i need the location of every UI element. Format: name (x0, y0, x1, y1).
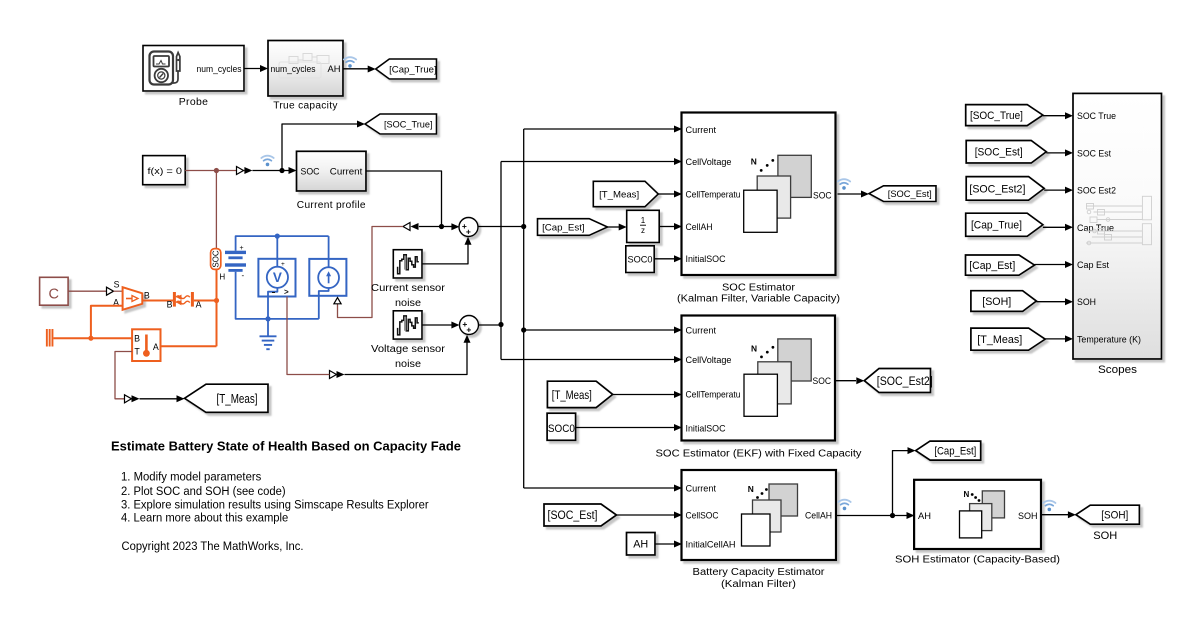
wire unit delay to CellAH est1 (659, 223, 682, 230)
battery SOC port bubble (211, 249, 221, 270)
wire [SOC_Est] to Scopes input (1046, 149, 1073, 156)
svg-text:CellVoltage: CellVoltage (686, 354, 732, 365)
svg-text:1. Modify model parameters: 1. Modify model parameters (121, 470, 261, 484)
svg-text:[T_Meas]: [T_Meas] (217, 392, 258, 406)
svg-text:SOC: SOC (301, 166, 320, 177)
wire battery SOC net (216, 170, 248, 172)
label SOC Estimator (677, 282, 840, 304)
goto tag SOC_Est (869, 186, 936, 202)
wire H node vertical (216, 269, 218, 346)
from tag [T_Meas] to Scopes (971, 328, 1045, 350)
goto tag SOC_Est2 (864, 369, 932, 393)
wire [SOC_True] to Scopes input (1043, 112, 1073, 119)
svg-text:[Cap_True]: [Cap_True] (389, 63, 437, 74)
label True capacity (273, 100, 338, 111)
wire temperature sensor T measurement (115, 352, 132, 399)
wire top bus into voltmeter plus (276, 236, 278, 259)
svg-text:(Kalman Filter, Variable Capac: (Kalman Filter, Variable Capacity) (677, 294, 840, 305)
svg-text:[T_Meas]: [T_Meas] (552, 388, 592, 402)
wire [Cap_Est] to Scopes input (1035, 261, 1074, 268)
svg-text:Scopes: Scopes (1098, 364, 1138, 376)
wire node up to source A (91, 306, 123, 339)
svg-text:N: N (751, 344, 757, 354)
svg-text:[T_Meas]: [T_Meas] (977, 334, 1022, 346)
svg-text:SOH Estimator (Capacity-Based): SOH Estimator (Capacity-Based) (895, 554, 1060, 565)
wire SOC branch to SOC_True goto (279, 121, 365, 174)
svg-text:Current sensor: Current sensor (371, 283, 446, 294)
wire voltmeter signal to sum bottom (345, 335, 471, 375)
PS-Simulink converter T measurement (125, 395, 140, 403)
svg-text:T: T (134, 347, 140, 357)
svg-text:SOC Est: SOC Est (1077, 147, 1111, 158)
from tag Cap_Est to unit delay (538, 219, 608, 236)
from tag SOC_Est to estimator3 (544, 504, 617, 526)
Simulink-PS converter at controlled source S (107, 287, 114, 295)
wire voltmeter minus to bottom bus (267, 297, 269, 319)
wire est1 SOC out to goto (838, 191, 870, 198)
wire current source to bottom bus (318, 296, 320, 319)
svg-text:SOC True: SOC True (1077, 110, 1116, 121)
from tag [SOH] to Scopes (971, 291, 1037, 312)
svg-text:S: S (114, 280, 120, 290)
svg-text:CellTemperatu: CellTemperatu (686, 389, 741, 400)
controlled current source block (309, 259, 346, 296)
label Scopes (1098, 364, 1138, 376)
from tag T_Meas to estimator2 (547, 381, 612, 407)
block True capacity (subsystem) (268, 41, 343, 97)
signal logging wifi icon est1 SOC (838, 179, 850, 190)
svg-text:Current: Current (686, 324, 717, 335)
wire Cap_Est to unit delay (608, 224, 627, 231)
svg-text:[Cap_True]: [Cap_True] (971, 220, 1022, 232)
signal logging wifi icon on Cap_True wire (344, 57, 356, 67)
wire SOC_Est to CellSOC est3 (617, 512, 683, 519)
svg-text:A: A (153, 342, 159, 352)
svg-text:+: + (281, 261, 285, 268)
temperature sensor block (132, 329, 160, 361)
block Current profile (subsystem) (297, 151, 367, 191)
svg-text:CellTemperatu: CellTemperatu (686, 188, 741, 199)
wire current measurement to routing line B (478, 224, 526, 229)
block Probe (multimeter icon subsystem) (143, 46, 244, 92)
electrical reference ground (260, 319, 277, 349)
wire voltage measurement to routing line A (479, 322, 504, 327)
wire current noise to sum (422, 237, 472, 264)
wire [SOH] to Scopes input (1036, 298, 1073, 305)
block AH constant est3 (627, 533, 656, 556)
wire C to converter (68, 290, 106, 292)
wire Probe to True capacity (244, 65, 268, 72)
svg-text:[SOC_Est]: [SOC_Est] (975, 147, 1023, 159)
wire top bus into current source (328, 236, 330, 259)
block SOC0 constant est2 (547, 413, 576, 440)
svg-text:[SOC_Est2]: [SOC_Est2] (969, 183, 1025, 195)
wire [T_Meas] to Scopes input (1045, 335, 1073, 342)
signal logging wifi icon SOH (1043, 501, 1055, 512)
goto tag SOC_True (365, 114, 437, 134)
goto tag T_Meas (185, 384, 269, 412)
from tag [SOC_Est2] to Scopes (966, 177, 1044, 201)
wire converter to Current profile SOC (252, 167, 296, 174)
svg-text:CellVoltage: CellVoltage (686, 156, 732, 167)
label SOH Estimator (Capacity-Based) (895, 554, 1060, 565)
svg-text:f(x) = 0: f(x) = 0 (148, 166, 183, 177)
svg-text:SOC Estimator (EKF) with Fixed: SOC Estimator (EKF) with Fixed Capacity (656, 449, 862, 460)
Simulink-PS converter current demand (403, 223, 410, 231)
sum block current measurement (459, 218, 478, 237)
svg-text:SOH: SOH (1077, 296, 1096, 307)
svg-text:CellAH: CellAH (686, 221, 713, 232)
icon pages estimator3 (742, 484, 798, 546)
svg-text:SOH: SOH (1093, 530, 1117, 542)
svg-text:Current: Current (686, 124, 717, 135)
svg-text:InitialCellAH: InitialCellAH (686, 538, 736, 549)
svg-text:[Cap_Est]: [Cap_Est] (969, 260, 1015, 272)
wire branch up to Cap_Est goto (893, 447, 916, 515)
junction top bus voltmeter (275, 234, 280, 239)
block SOC0 constant est1 (626, 246, 654, 273)
unit delay 1/z block (627, 210, 660, 242)
block SOH Estimator (Capacity-Based) (914, 480, 1041, 549)
label Battery Capacity Estimator (693, 567, 826, 590)
svg-text:-: - (242, 271, 245, 280)
svg-text:SOC: SOC (813, 375, 832, 386)
wire H node to temperature sensor A (161, 345, 217, 347)
thermal reference (46, 329, 54, 347)
title annotation (111, 439, 461, 454)
block Scopes (subsystem) (1073, 93, 1162, 359)
svg-text:[T_Meas]: [T_Meas] (599, 188, 639, 199)
conductive heat transfer block (167, 292, 202, 310)
wire battery negative to bottom bus (236, 272, 319, 319)
svg-text:N: N (964, 490, 970, 499)
svg-text:SOC: SOC (212, 250, 221, 268)
goto tag Cap_Est (916, 441, 981, 460)
svg-text:3. Explore simulation results: 3. Explore simulation results using Sims… (121, 497, 429, 511)
svg-text:1: 1 (641, 216, 646, 225)
svg-text:InitialSOC: InitialSOC (686, 253, 726, 264)
svg-text:num_cycles: num_cycles (197, 63, 242, 74)
svg-text:SOC0: SOC0 (548, 423, 575, 435)
signal logging wifi icon on SOC signal (261, 156, 273, 167)
PS-Simulink converter on SOC signal (237, 167, 253, 175)
svg-text:C: C (49, 286, 60, 303)
svg-text:Estimate Battery State of Heal: Estimate Battery State of Health Based o… (111, 439, 461, 454)
wire AH to InitialCellAH est3 (655, 541, 682, 548)
from tag T_Meas to estimator1 (593, 181, 658, 206)
ghost diagram inside Scopes (1086, 196, 1152, 245)
wire conductive A to H node (194, 298, 219, 303)
wire converter to source S port (114, 290, 123, 292)
block f(x)=0 solver configuration (143, 156, 186, 185)
svg-text:Cap Est: Cap Est (1077, 259, 1109, 270)
list annotation (121, 470, 429, 525)
current source control port triangle (334, 298, 341, 304)
svg-text:True capacity: True capacity (273, 100, 338, 111)
svg-text:Current: Current (686, 482, 717, 493)
wire SOC0 to InitialSOC est1 (654, 255, 682, 262)
svg-text:Current profile: Current profile (297, 200, 366, 211)
svg-text:B: B (134, 334, 140, 344)
label Voltage sensor noise (371, 344, 446, 370)
svg-text:[SOC_Est]: [SOC_Est] (548, 510, 598, 522)
wire T measurement to T_Meas goto (140, 395, 185, 402)
goto tag Cap_True (376, 59, 437, 79)
from tag [Cap_Est] to Scopes (966, 255, 1035, 275)
wire T_Meas to CellTemperature est1 (658, 191, 682, 198)
from tag [Cap_True] to Scopes (966, 213, 1043, 236)
svg-text:+: + (466, 325, 471, 335)
sum block voltage measurement (460, 316, 479, 335)
label SOC Estimator EKF (656, 449, 862, 460)
wire voltmeter measurement down (287, 297, 330, 375)
svg-text:Voltage sensor: Voltage sensor (371, 344, 446, 355)
wire battery positive to top bus (236, 236, 329, 251)
block Current sensor noise (393, 250, 422, 278)
label Probe (179, 97, 209, 108)
routing line B measured current vertical (523, 129, 525, 488)
svg-text:N: N (751, 157, 757, 167)
PS-Simulink converter voltmeter (330, 371, 345, 379)
svg-text:4. Learn more about this examp: 4. Learn more about this example (121, 510, 288, 524)
icon pages estimator1 (744, 155, 812, 232)
wire to Simulink-PS converter (current demand) (411, 223, 442, 230)
wire thermal reference to node (53, 336, 93, 341)
routing line A measured voltage vertical (500, 162, 502, 360)
svg-text:V: V (273, 270, 282, 285)
svg-text:Current: Current (330, 166, 363, 177)
wire node to temperature sensor B (91, 337, 132, 339)
block C (thermal mass) (40, 277, 69, 305)
block Battery Capacity Estimator (Kalman Filter) (682, 470, 837, 560)
wire [SOC_Est2] to Scopes input (1044, 187, 1073, 194)
svg-text:+: + (466, 227, 471, 237)
svg-text:SOH: SOH (1018, 510, 1038, 521)
wire True capacity to Cap_True goto (343, 66, 376, 73)
wire line A to estimator1 CellVoltage (501, 158, 682, 165)
wire f(x)=0 to node (185, 168, 219, 173)
svg-text:SOC Estimator: SOC Estimator (722, 282, 796, 293)
label Current profile (297, 200, 366, 211)
voltmeter block (258, 259, 295, 297)
svg-text:AH: AH (918, 510, 931, 521)
wire [Cap_True] to Scopes input (1043, 224, 1073, 231)
wire line A to estimator2 CellVoltage (501, 356, 682, 363)
wire solver node down to battery SOC port (215, 171, 217, 249)
copyright annotation (122, 539, 304, 553)
goto tag SOH (1076, 505, 1140, 524)
block Voltage sensor noise (393, 311, 422, 339)
battery H port label (219, 272, 225, 281)
svg-text:AH: AH (328, 63, 341, 74)
svg-text:SOC Est2: SOC Est2 (1077, 185, 1116, 196)
junction line B est2 (521, 327, 526, 332)
svg-text:InitialSOC: InitialSOC (686, 423, 726, 434)
svg-text:noise: noise (395, 359, 421, 370)
svg-text:[SOH]: [SOH] (1101, 510, 1128, 522)
svg-text:[Cap_Est]: [Cap_Est] (934, 446, 976, 458)
wire Current profile output down (366, 171, 444, 229)
svg-text:Battery Capacity Estimator: Battery Capacity Estimator (693, 567, 826, 578)
svg-text:noise: noise (395, 298, 421, 309)
wire current demand physical to current source (338, 227, 404, 318)
wire line B to estimator2 Current (524, 327, 682, 334)
svg-text:B: B (167, 300, 173, 310)
svg-text:CellAH: CellAH (805, 509, 832, 520)
svg-text:Temperature (K): Temperature (K) (1077, 333, 1141, 344)
svg-text:H: H (219, 272, 225, 281)
svg-text:>: > (284, 288, 289, 297)
icon pages estimator2 (744, 339, 811, 416)
from tag [SOC_True] to Scopes (966, 105, 1043, 126)
svg-text:[SOC_Est2]: [SOC_Est2] (877, 376, 933, 388)
signal logging wifi icon est3 CellAH (838, 500, 850, 511)
svg-text:SOC: SOC (813, 189, 832, 200)
svg-text:B: B (144, 290, 150, 300)
battery cell symbol (blue) (225, 245, 246, 280)
svg-text:[Cap_Est]: [Cap_Est] (542, 221, 585, 232)
svg-text:+: + (240, 245, 244, 252)
icon pages SOH estimator (960, 490, 1005, 538)
svg-text:Probe: Probe (179, 97, 209, 108)
block SOC Estimator (Kalman Filter, Variable Capacity) (682, 113, 836, 276)
wire SOH out to goto (1041, 511, 1076, 518)
block SOC Estimator (EKF) with Fixed Capacity (682, 316, 836, 441)
wire line B to estimator3 Current (524, 485, 682, 492)
svg-text:z: z (641, 226, 645, 235)
svg-text:CellSOC: CellSOC (686, 509, 719, 520)
label Current sensor noise (371, 283, 446, 309)
wire T_Meas to CellTemperature est2 (613, 391, 682, 398)
controlled temperature source (orange triangle) (113, 280, 150, 310)
svg-text:2. Plot SOC and SOH (see code): 2. Plot SOC and SOH (see code) (121, 484, 286, 498)
junction bottom bus ground (265, 316, 270, 321)
svg-text:Copyright 2023 The MathWorks,: Copyright 2023 The MathWorks, Inc. (122, 539, 304, 553)
svg-text:[SOH]: [SOH] (982, 296, 1011, 308)
svg-text:[SOC_True]: [SOC_True] (384, 118, 433, 129)
svg-text:N: N (748, 484, 754, 494)
svg-text:SOC0: SOC0 (628, 254, 653, 265)
from tag [SOC_Est] to Scopes (966, 141, 1046, 164)
wire est2 SOC out to goto (835, 377, 864, 384)
svg-text:[SOC_Est]: [SOC_Est] (888, 188, 932, 199)
wire SOC0 to InitialSOC est2 (576, 424, 682, 431)
svg-text:[SOC_True]: [SOC_True] (970, 110, 1023, 122)
wire est3 CellAH out (836, 512, 915, 519)
sum junction wire into current sum (442, 223, 460, 230)
svg-text:num_cycles: num_cycles (271, 63, 316, 74)
svg-text:(Kalman Filter): (Kalman Filter) (721, 579, 796, 590)
label SOH under goto tag (1093, 530, 1117, 542)
wire source B to conductive block (142, 300, 173, 302)
wire line B to estimator1 Current (524, 126, 682, 133)
wire voltage noise to sum (422, 322, 459, 329)
svg-text:AH: AH (633, 539, 648, 551)
